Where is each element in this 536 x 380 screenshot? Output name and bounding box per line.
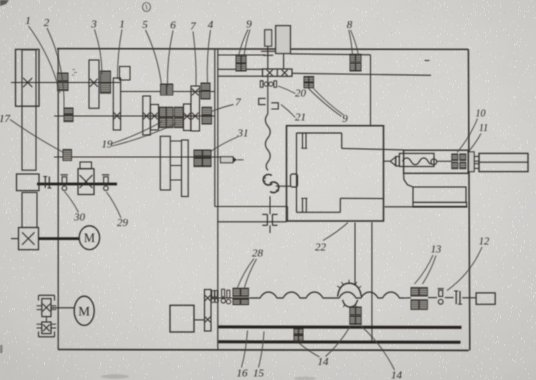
rail gear left lower — [294, 335, 298, 341]
wire yoke connector top — [170, 140, 181, 142]
hob arbor cylinder right — [479, 153, 528, 171]
gear 11 right lower — [460, 162, 466, 168]
wire chuck bottom slot foot — [301, 197, 307, 199]
leader from label 5 — [146, 30, 162, 85]
X mark in M1 pulley box — [22, 232, 34, 244]
gear cluster2 upper on shaft C — [175, 107, 184, 116]
X mark reducer lower — [43, 324, 50, 331]
X mark gear block upper — [205, 295, 211, 301]
leader from label 14 right — [361, 326, 395, 371]
small bearing rect above R1 — [120, 67, 131, 81]
wire arbor centerline — [479, 161, 528, 163]
small circled mark above label 5 — [143, 3, 151, 12]
tailstock pedestal step — [404, 173, 413, 187]
arbor flange on border line — [469, 152, 475, 172]
node small dash near x=428 y=60 — [425, 60, 430, 62]
wire chuck top slot foot — [301, 147, 307, 149]
scan smudge top-left corner — [0, 0, 9, 6]
tall block R2 spanning shafts B and C — [191, 86, 200, 131]
svg-text:19: 19 — [102, 139, 114, 151]
wire shaft C y=116 — [54, 115, 215, 117]
gear on shaft C left stub upper — [64, 108, 73, 114]
wire bottom feed shaft left segment y=298 — [211, 297, 250, 299]
wire chuck mouth bottom line — [340, 197, 383, 199]
svg-text:9: 9 — [246, 19, 252, 31]
X mark in R4 — [151, 113, 157, 119]
gear 8 left column lower — [350, 63, 355, 71]
svg-text:17: 17 — [0, 113, 11, 125]
svg-text:22: 22 — [315, 242, 327, 254]
tall rect block at top (tracer head) — [276, 26, 291, 54]
wire shaft B y=91.5 — [121, 91, 215, 93]
leader b from label 8 — [351, 30, 359, 55]
gear 8 right column lower — [356, 63, 361, 71]
gear cluster2 lower on shaft C — [175, 118, 184, 128]
wire leadscrew to gears 13 — [404, 297, 411, 299]
scan smudge bottom — [101, 374, 129, 378]
wire chuck inner top horizontal — [297, 132, 342, 134]
gear 2 upper on shaft A — [58, 73, 69, 81]
svg-text:14: 14 — [318, 356, 330, 368]
svg-text:1: 1 — [119, 19, 125, 31]
wire table surface line left segment — [215, 206, 287, 208]
leader from label 12 — [447, 247, 482, 291]
wire shaft III y=157 — [54, 156, 221, 158]
wire vertical column lower segment — [269, 196, 271, 214]
leader b from label 9 top — [244, 30, 250, 57]
block R3 on shaft C — [143, 96, 151, 135]
leader a from label 9 top — [239, 30, 249, 57]
svg-text:31: 31 — [237, 128, 249, 140]
gear 11 right upper — [460, 154, 466, 161]
scan smudge left edge — [0, 345, 3, 353]
tailstock pedestal strip — [413, 202, 467, 206]
wire step from table line to box 22 bottom — [286, 207, 288, 222]
leader from label 7 middle — [212, 105, 234, 112]
svg-text:3: 3 — [90, 19, 97, 31]
gear 13 left lower — [411, 300, 419, 310]
wire yoke connector upper — [170, 165, 181, 167]
X mark in R5 — [184, 113, 190, 119]
leader from label 22 — [323, 223, 348, 241]
belt rectangle to lower pulley — [22, 193, 37, 228]
reducer lower X cell — [42, 322, 51, 334]
X mark in R2 on shaft C — [192, 113, 199, 120]
wire shaft from bevel box right to x=431 — [292, 73, 431, 75]
gear 29 (bar-gear with roller) on feed shaft — [102, 175, 109, 191]
gear 9 left column upper — [236, 56, 241, 63]
wire shelf y=76 to bevel box — [218, 75, 263, 77]
wire bottom compartment left wall — [217, 207, 219, 350]
wire shelf y=69 to bevel box — [218, 68, 263, 70]
coupling on feed shaft — [43, 177, 51, 189]
leader from label 17 — [10, 120, 64, 153]
leader b from label 28 — [245, 259, 257, 288]
svg-text:13: 13 — [431, 245, 442, 256]
split nut upper arc with ticks — [337, 280, 361, 297]
gear 8 right column upper — [356, 55, 361, 62]
tailstock center holder small rect — [396, 157, 400, 167]
block R1 spanning shafts — [113, 78, 120, 130]
yoke rect A below gearbox — [160, 136, 170, 190]
wire thick rail lower y=342 — [218, 340, 461, 344]
gear 28 right lower — [241, 299, 249, 305]
leader from label 11 — [469, 134, 482, 152]
wire thick rail upper y=327 — [218, 325, 462, 329]
vertical cylinder (tracer stylus) — [265, 30, 272, 46]
cap rect above X-box on feed shaft — [80, 162, 92, 169]
gear 13 right upper — [420, 288, 428, 296]
gear 28 left upper — [233, 288, 240, 296]
svg-text:8: 8 — [347, 19, 353, 31]
gear 3 upper on shaft A — [101, 71, 111, 82]
X mark in block R0 — [90, 79, 98, 87]
wire chuck inner left vertical — [296, 133, 298, 213]
wire shaft through border to handwheel box — [462, 297, 476, 299]
leader a from label 19 — [111, 122, 163, 145]
wire left inner vertical x=58 — [57, 49, 59, 350]
pulley cone block on shaft A — [16, 49, 40, 106]
gear 28 left lower — [233, 299, 240, 305]
gear 13 right lower — [420, 300, 428, 310]
leader a from label 9 middle — [309, 89, 342, 117]
X mark bevel box left cell — [267, 70, 273, 76]
X mark reducer upper — [43, 304, 51, 312]
svg-text:21: 21 — [295, 112, 306, 124]
wire shaft A y=82.5 — [11, 82, 121, 84]
wire top border of machine frame — [57, 48, 468, 51]
svg-text:M: M — [78, 304, 90, 319]
svg-text:15: 15 — [253, 368, 265, 380]
handwheel box outside border — [476, 293, 495, 304]
pulley X-box on motor M1 shaft — [19, 228, 39, 250]
block R5 on shaft C — [184, 104, 191, 131]
wire vertical from y55 shelf down to box 22 top — [370, 55, 372, 126]
headstock center bullet on shaft III — [221, 157, 244, 163]
gear 31 right upper on shaft III — [203, 150, 211, 157]
leader from label 10 — [457, 119, 478, 153]
wire table surface line right segment — [384, 206, 467, 208]
wire shaft gears 13 to roller gear — [428, 297, 437, 299]
nut gear right lower — [356, 316, 361, 324]
leader from label 29 — [107, 192, 122, 218]
svg-text:7: 7 — [190, 21, 196, 33]
flexible shaft wavy vertical — [265, 114, 270, 171]
rail gear right lower — [299, 335, 303, 341]
arbor tab upper — [474, 156, 479, 161]
leader a from label 28 — [238, 259, 255, 288]
small gear pair at wall — [211, 291, 218, 303]
motor M2 — [74, 296, 94, 325]
wire gearbox right wall (left line) — [214, 49, 216, 207]
wire divider of bevel box — [276, 69, 278, 76]
wire thick shaft M1 to pulley box — [39, 237, 80, 240]
quill spring hook circle — [431, 159, 437, 165]
wire feed shaft y=184 thick — [37, 183, 117, 186]
leader from label 4 — [207, 30, 210, 83]
gear 19a lower on shaft C — [160, 118, 167, 128]
X mark gear block lower — [205, 317, 211, 323]
X mark in R3 — [143, 113, 150, 120]
wire shelf y=55 left segment — [218, 54, 265, 56]
leader a from label 13 — [415, 255, 434, 284]
leader from label 7 top — [193, 32, 196, 87]
X mark in R2 on shaft B — [192, 89, 199, 96]
leader from label 20 — [278, 86, 295, 94]
rail gear left upper — [294, 329, 298, 335]
wire workpiece axis stub — [384, 160, 390, 162]
gear 7 lower on shaft C — [202, 116, 212, 124]
worm and wheel hooks on vertical column — [263, 174, 279, 192]
nut gear left lower — [350, 316, 355, 324]
gear 9b left upper — [304, 77, 309, 82]
svg-text:20: 20 — [295, 88, 307, 100]
svg-text:1: 1 — [25, 15, 31, 27]
X-box pulley on feed shaft — [78, 169, 94, 195]
tailstock center tip — [390, 157, 396, 166]
gear 19b lower on shaft C — [167, 118, 174, 128]
nut gear left upper — [350, 307, 355, 315]
gear 31 left lower on shaft III — [194, 158, 202, 167]
wire chuck top slot left — [302, 133, 304, 148]
wire shaft to coupling — [445, 297, 454, 299]
bottom feed box — [170, 305, 194, 332]
leadscrew wavy line — [250, 292, 404, 298]
gear 10 left upper — [452, 154, 458, 161]
gear 9 right column lower — [241, 63, 246, 71]
gear 3 lower on shaft A — [101, 83, 111, 94]
svg-text:14: 14 — [391, 370, 403, 380]
wire right border of machine frame — [468, 49, 469, 350]
arbor tab lower — [474, 164, 479, 169]
leader from label 30 — [65, 192, 79, 213]
roller gear 12 target (bar and roller) — [438, 289, 444, 305]
gear 9b left lower — [304, 82, 309, 87]
X mark bevel box right cell — [282, 70, 288, 76]
svg-text:12: 12 — [479, 237, 490, 248]
gear 5 on shaft B — [161, 84, 167, 95]
svg-text:7: 7 — [235, 97, 241, 109]
coupling on feed shaft right — [454, 291, 462, 304]
wire vertical from table down to leadscrew nut — [354, 223, 356, 285]
bevel pair on feed shaft — [221, 289, 231, 304]
leader b from label 14 left — [326, 327, 351, 357]
rail gear right upper — [299, 329, 303, 335]
scan smudge bottom middle — [294, 377, 316, 380]
wire yoke connector lower — [170, 179, 181, 181]
svg-text:28: 28 — [252, 248, 264, 260]
yoke rect B below gearbox — [182, 140, 189, 197]
wire feed box to gear block — [194, 319, 205, 321]
wire chuck bottom slot left — [302, 198, 304, 212]
wire bottom border of machine frame — [58, 349, 469, 352]
gear 19b upper on shaft C — [167, 107, 174, 116]
leader b from label 9 middle — [314, 89, 344, 116]
clamp key inside box 22 — [291, 174, 298, 187]
leader from second label 1 — [117, 30, 122, 80]
gear 9 right column upper — [241, 56, 246, 63]
split nut lower arc with ticks — [343, 300, 358, 310]
leader from label 1 — [29, 26, 61, 93]
svg-text:16: 16 — [237, 368, 249, 380]
wire vertical from box 22 bottom down to rails — [371, 222, 373, 342]
leader from label 16 — [242, 331, 248, 368]
bevel pair 20 (bar and rollers) — [260, 81, 276, 88]
wire vertical drive column below bevel box — [267, 76, 269, 114]
leader b from label 13 — [423, 256, 437, 285]
gear 9 left column lower — [236, 63, 241, 71]
wire clutch shaft to box 22 — [218, 221, 287, 223]
wire shaft reducer to motor M2 — [51, 307, 74, 309]
wire gearbox right wall (right line) — [217, 49, 219, 207]
gear 7 upper on shaft C — [202, 107, 212, 115]
wire chuck inner bottom horizontal — [297, 211, 341, 213]
wire chuck bottom step vertical — [339, 198, 341, 212]
gear 30 (bar-gear with roller) on feed shaft — [61, 175, 68, 191]
box 22 work table housing — [287, 126, 384, 221]
gear 4 upper on shaft B — [201, 83, 210, 90]
tailstock quill rect — [399, 153, 434, 166]
svg-text:5: 5 — [142, 19, 148, 31]
faint small marks near x=75 y=72 — [72, 70, 77, 76]
wire shaft stub left of M1 pulley box — [11, 238, 19, 240]
gear 10 left lower — [452, 162, 458, 168]
gear 9b right lower — [309, 82, 314, 87]
quill spring wavy line — [403, 158, 433, 165]
leader from label 2 — [47, 28, 64, 108]
gear 13 left upper — [411, 288, 419, 296]
leader from label 6 — [167, 31, 173, 88]
block R4 on shaft C — [151, 105, 159, 131]
wire chuck bottom slot right — [305, 198, 307, 212]
wire from tracer head down to bevel box — [283, 54, 285, 70]
leader from label 3 — [95, 30, 103, 75]
tailstock main box — [404, 150, 469, 173]
gear 8 left column upper — [350, 55, 355, 62]
gear 28 right upper — [241, 288, 249, 296]
gear 17 on shaft III — [63, 150, 72, 161]
bevel gear box with two X cells — [263, 69, 293, 76]
leader from label 21 — [281, 105, 295, 118]
wire spring to gears 10-11 — [437, 160, 452, 162]
gear on shaft C left stub lower — [64, 115, 73, 121]
leader a from label 14 left — [300, 344, 320, 358]
gear 9b right upper — [309, 77, 314, 82]
sliding block R0 on shaft A — [89, 60, 99, 108]
gear 2 lower on shaft A — [58, 82, 69, 90]
piston rod below cylinder — [261, 46, 275, 69]
bearing box on feed shaft — [17, 174, 40, 191]
belt drive tall rectangle — [22, 50, 36, 170]
tailstock pedestal box — [413, 187, 466, 202]
svg-text:M: M — [84, 231, 95, 245]
wire shelf y=55 right segment — [290, 54, 370, 55]
motor M1 — [79, 226, 99, 250]
bevel pair 21 (angle brackets) — [259, 98, 279, 109]
wire vertical column stub below clutch — [269, 225, 271, 233]
wire chuck top step vertical — [341, 133, 343, 148]
gear 31 right lower on shaft III — [203, 158, 211, 167]
leader from label 31 — [211, 137, 239, 152]
svg-text:29: 29 — [117, 217, 129, 229]
svg-text:10: 10 — [476, 109, 486, 120]
svg-text:4: 4 — [208, 19, 214, 31]
clutch half brackets on vertical column — [262, 214, 277, 225]
worm reducer housing (vertical) — [37, 295, 57, 337]
X mark in R1 on shaft C — [114, 112, 121, 119]
leader a from label 8 — [349, 30, 353, 55]
gear 31 left upper on shaft III — [194, 150, 202, 157]
vertical gear block with two X — [205, 290, 212, 332]
gear 6 on shaft B — [167, 84, 173, 95]
wire chuck mouth top line to tailstock — [342, 148, 404, 150]
reducer upper X cell — [42, 299, 51, 317]
X mark pulley fixed on shaft A — [23, 78, 32, 87]
svg-text:11: 11 — [479, 123, 488, 134]
nut gear right upper — [356, 307, 361, 315]
svg-text:30: 30 — [73, 212, 86, 224]
leader from label 15 — [259, 332, 265, 368]
X mark in feed shaft box — [80, 175, 93, 188]
gear 4 lower on shaft B — [201, 91, 210, 99]
wire worm mesh line into box 22 — [277, 185, 291, 187]
gear 19a upper on shaft C — [160, 107, 167, 116]
svg-text:2: 2 — [44, 17, 50, 29]
leader b from label 19 — [112, 124, 176, 147]
svg-text:6: 6 — [170, 20, 176, 32]
wire chuck top slot right — [305, 133, 307, 148]
